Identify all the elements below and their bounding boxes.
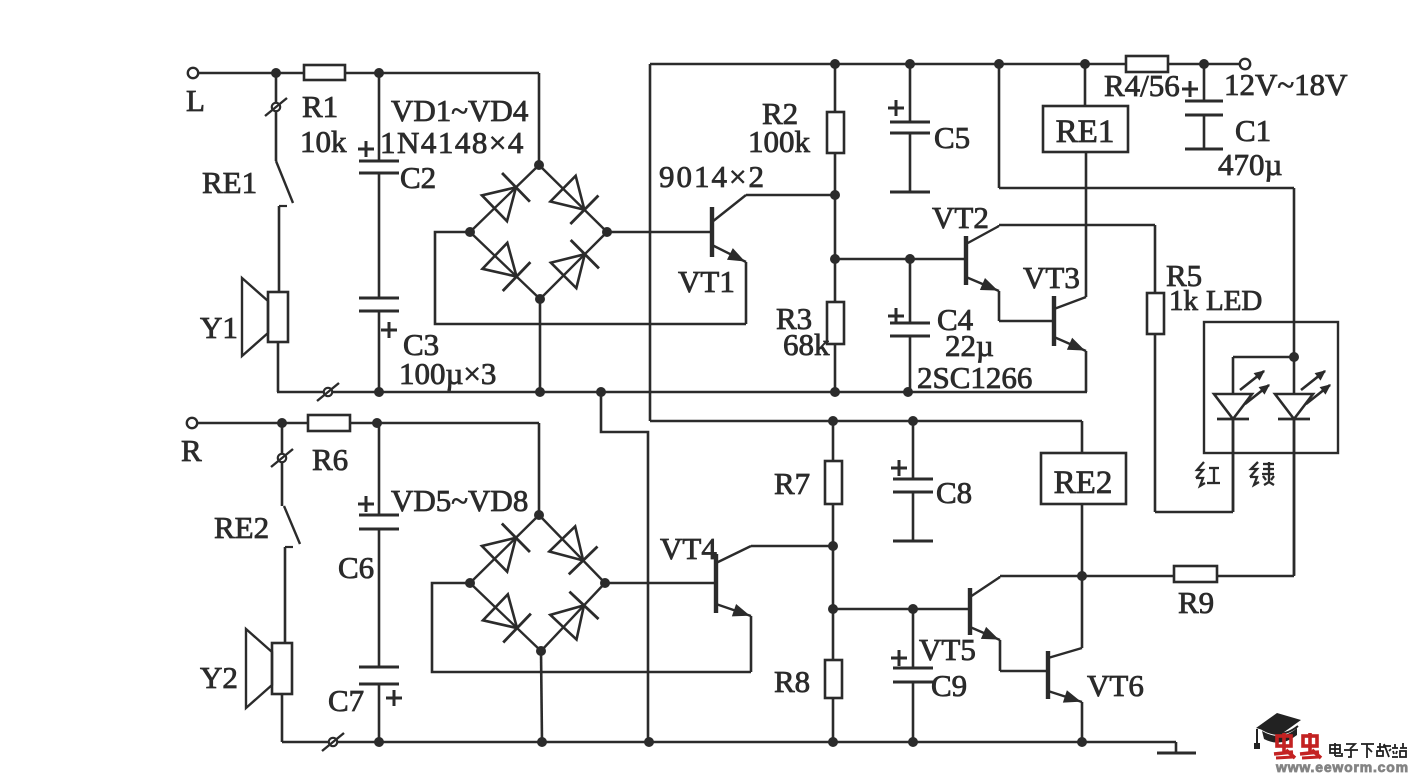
svg-text:12V~18V: 12V~18V (1224, 67, 1348, 102)
svg-text:R6: R6 (312, 442, 348, 477)
svg-text:100µ×3: 100µ×3 (399, 356, 496, 391)
svg-text:RE1: RE1 (202, 165, 257, 200)
svg-text:1k: 1k (1169, 285, 1199, 317)
svg-text:VT2: VT2 (932, 200, 989, 235)
svg-text:R7: R7 (774, 466, 810, 501)
svg-text:Y2: Y2 (200, 660, 238, 695)
svg-text:R1: R1 (302, 89, 338, 124)
svg-text:LED: LED (1206, 285, 1262, 317)
svg-text:RE2: RE2 (214, 510, 269, 545)
svg-text:C8: C8 (936, 475, 972, 510)
svg-text:R8: R8 (774, 664, 810, 699)
svg-text:68k: 68k (783, 327, 830, 362)
svg-text:VT4: VT4 (660, 531, 717, 566)
svg-text:VT5: VT5 (919, 632, 976, 667)
svg-text:RE1: RE1 (1056, 114, 1115, 150)
svg-text:9014×2: 9014×2 (659, 159, 766, 194)
svg-text:Y1: Y1 (200, 310, 238, 345)
svg-text:100k: 100k (748, 124, 811, 159)
svg-text:R9: R9 (1178, 585, 1214, 620)
svg-text:10k: 10k (300, 124, 347, 159)
svg-text:C7: C7 (328, 683, 364, 718)
svg-text:L: L (186, 83, 205, 118)
svg-text:C5: C5 (934, 120, 970, 155)
svg-text:VD5~VD8: VD5~VD8 (391, 483, 528, 518)
svg-text:VT1: VT1 (678, 264, 735, 299)
svg-text:RE2: RE2 (1054, 465, 1113, 501)
svg-text:C9: C9 (931, 668, 967, 703)
svg-text:VD1~VD4: VD1~VD4 (391, 93, 529, 128)
svg-text:2SC1266: 2SC1266 (917, 360, 1032, 395)
svg-text:R: R (181, 433, 202, 468)
svg-text:22µ: 22µ (945, 328, 994, 363)
svg-text:470µ: 470µ (1218, 147, 1282, 182)
svg-text:VT3: VT3 (1023, 260, 1080, 295)
svg-text:C6: C6 (338, 550, 374, 585)
svg-text:www.eeworm.com: www.eeworm.com (1275, 759, 1409, 773)
svg-text:C2: C2 (400, 160, 436, 195)
svg-text:R4/56: R4/56 (1104, 68, 1180, 103)
svg-text:C1: C1 (1235, 113, 1271, 148)
svg-text:1N4148×4: 1N4148×4 (380, 125, 525, 160)
svg-text:VT6: VT6 (1087, 668, 1144, 703)
